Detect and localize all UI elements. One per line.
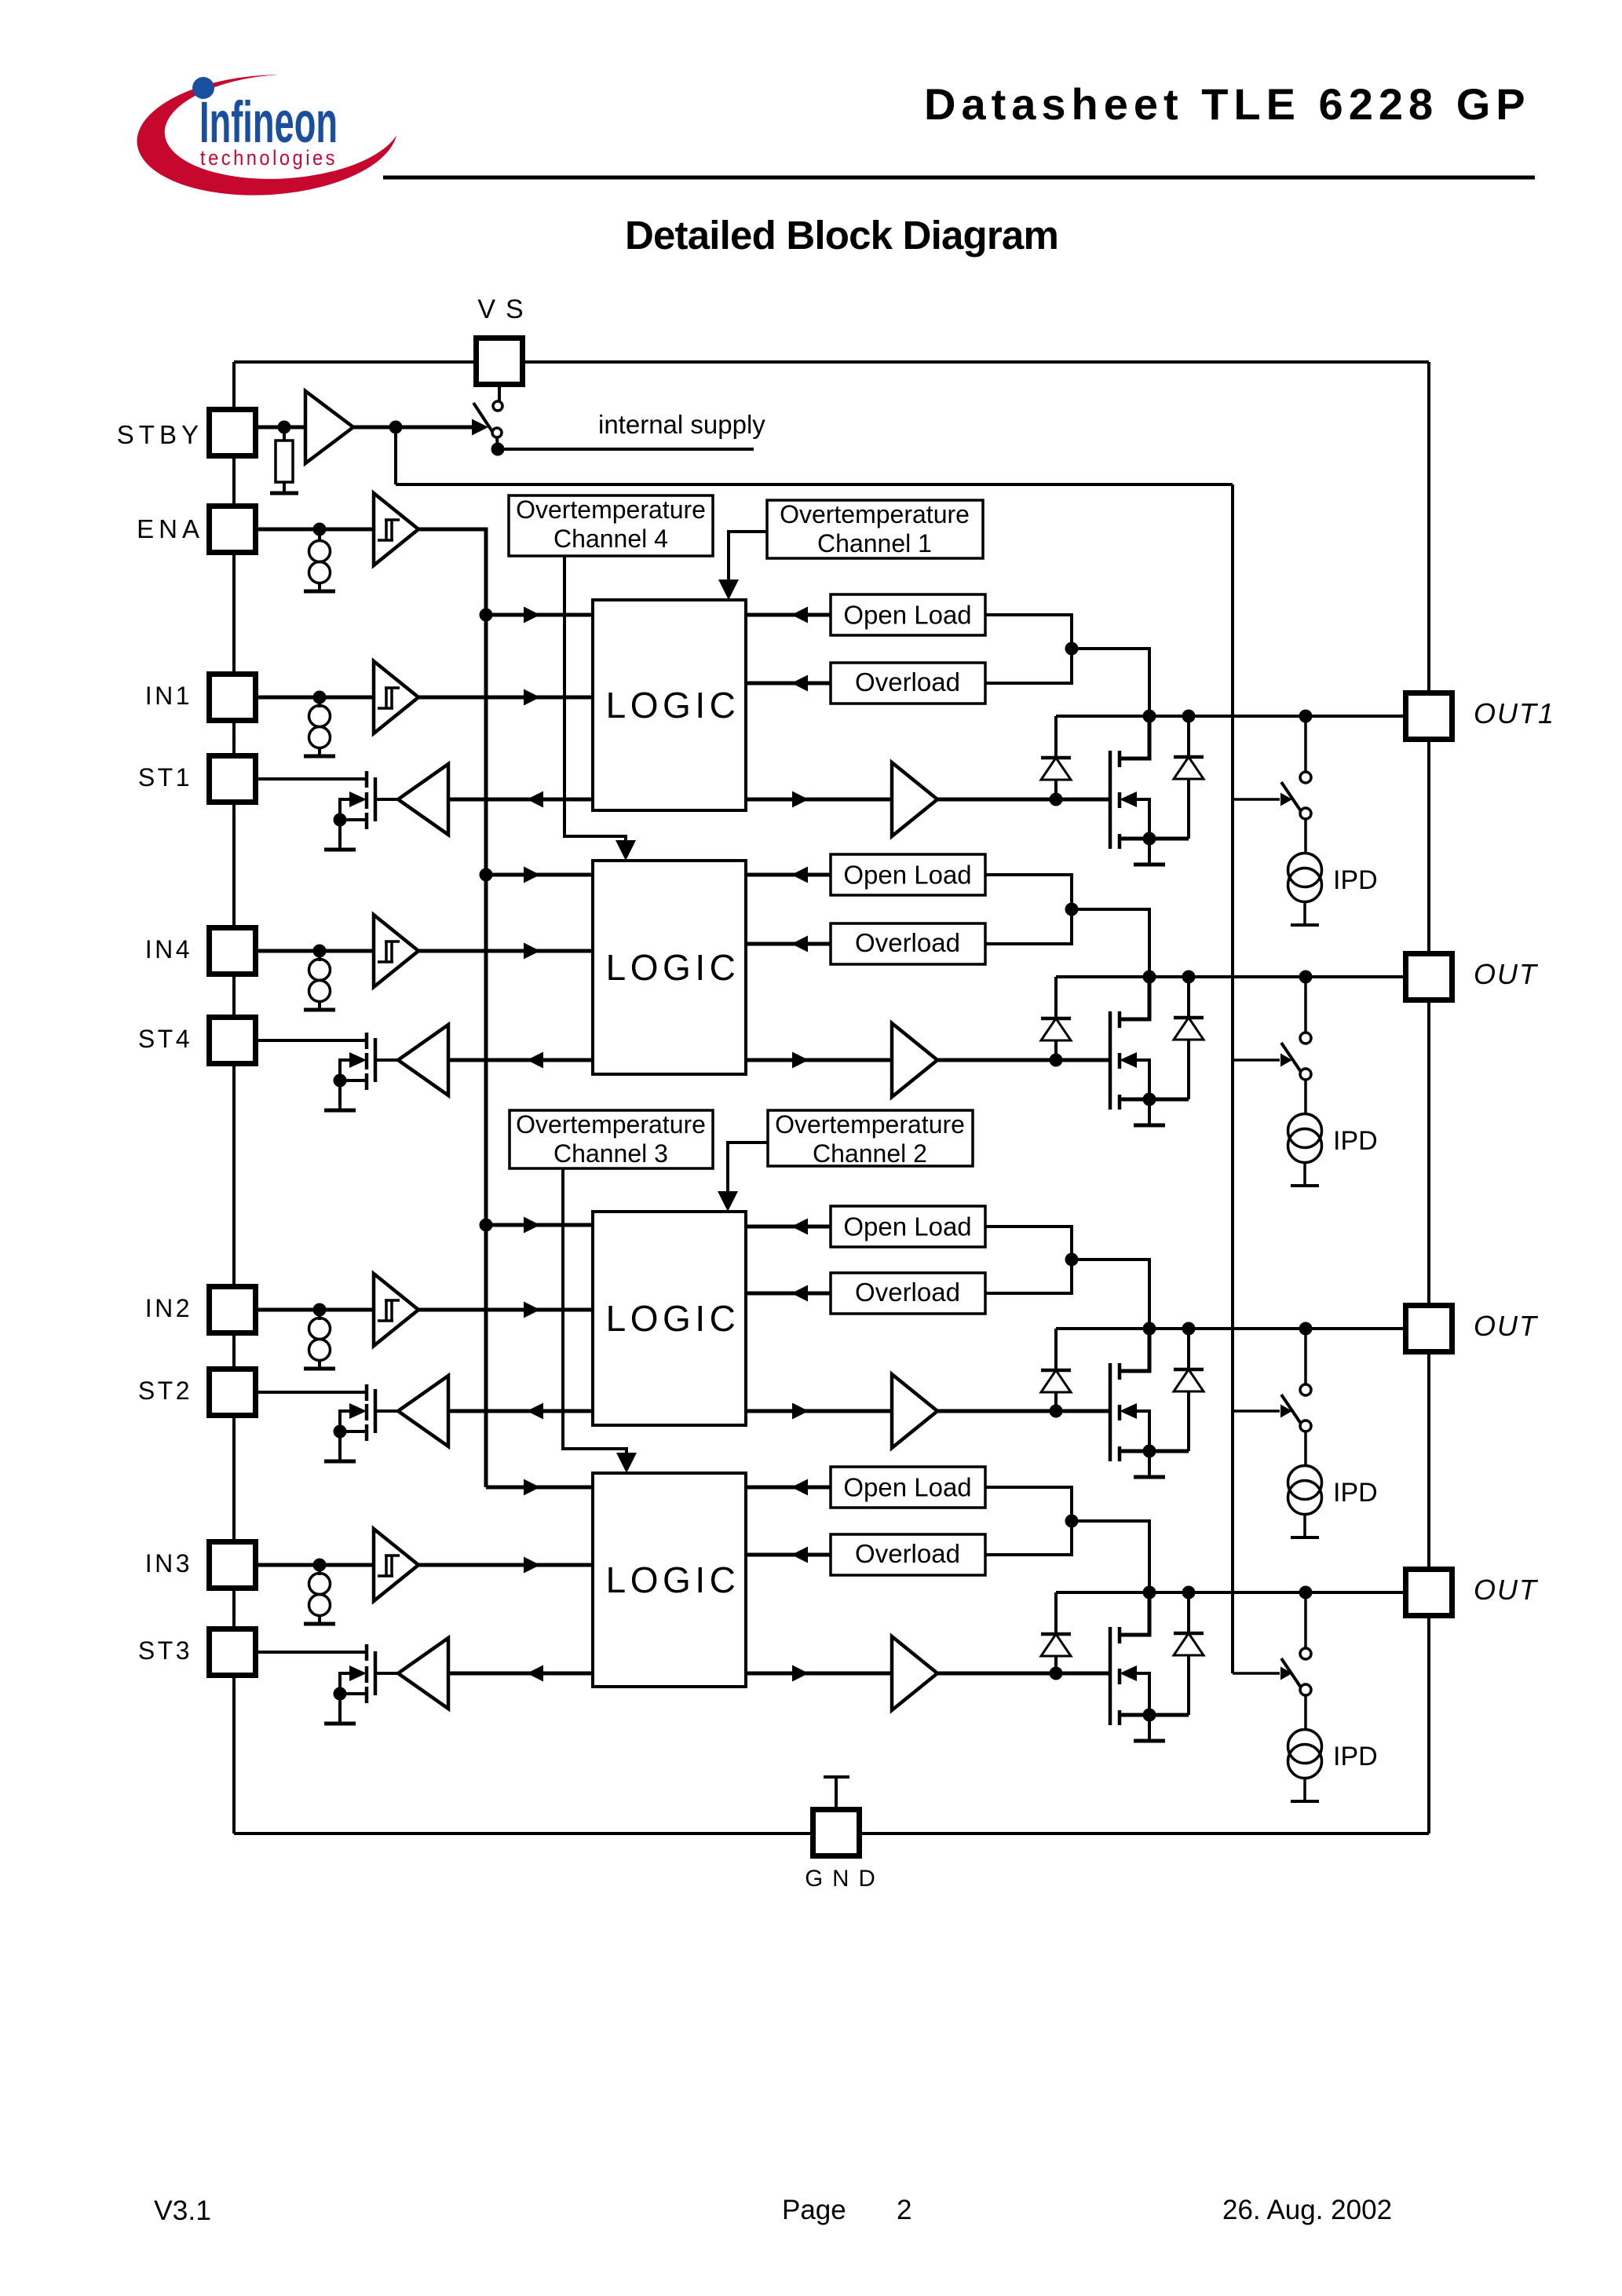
junction switch on out line ch4 [1299,971,1313,984]
label ST3 [138,1636,192,1665]
label IN4 [145,935,192,963]
transistor Q_ST2 gate bar [374,1389,378,1433]
arrow switch control ch2 [1280,1405,1292,1418]
wire Q_ST1 source to ground [338,820,342,849]
overtemp block Channel 3 OT3 [510,1110,713,1168]
current source I_IN2 [309,1318,331,1361]
ground IPD ch3 [1291,1800,1319,1803]
svg-text:Overload: Overload [855,1539,960,1568]
transistor output FET ch3 channel [1118,1627,1122,1725]
junction IN4 pulldown [313,945,327,958]
svg-text:ST4: ST4 [138,1025,192,1053]
wire FET body to source ch2 [1137,1411,1149,1451]
arrow OT3 into LOGIC4 [616,1453,637,1473]
junction FET source ch1 [1143,832,1156,846]
svg-text:Open Load: Open Load [843,1473,971,1502]
wire sense open load side [985,1487,1072,1555]
wire sense open load side [985,615,1072,683]
svg-text:Open Load: Open Load [843,861,971,890]
ground I_ENA [304,590,335,594]
IC boundary left border [232,362,236,1834]
transistor output FET ch4 body arrow [1120,1052,1137,1068]
wire OT3 to LOGIC4 [563,1168,627,1468]
wire sense to drain ch2 [1072,1260,1149,1329]
pin OUT1 ch1 [1406,693,1452,740]
arrow open load into LOGIC2 [791,1219,808,1235]
wire LOGIC1 to ST1 buffer [448,798,593,802]
svg-text:OUT1: OUT1 [1474,697,1555,729]
wire out line to IPD switch ch3 [1304,1592,1307,1648]
wire LOGIC1 to output driver [746,798,892,802]
footer version [154,2195,211,2226]
svg-text:OUT: OUT [1474,958,1539,990]
svg-text:Datasheet TLE 6228 GP: Datasheet TLE 6228 GP [924,79,1531,129]
svg-text:Overtemperature: Overtemperature [780,500,970,528]
switch S_VS upper contact [493,401,502,411]
wire ENA rail to LOGIC2 [486,1223,593,1227]
wire out line to clamp diode ch4 [1054,977,1058,1018]
diode gate clamp ch4 [1041,1018,1071,1040]
wire overload to LOGIC4 [746,942,831,946]
wire FET body to source ch3 [1137,1673,1149,1715]
svg-text:V3.1: V3.1 [154,2195,211,2226]
wire switch to IPD ch3 [1304,1695,1307,1729]
junction body diode on out line ch3 [1182,1586,1196,1600]
junction Q_ST1 source [334,813,347,827]
wire switch control ch1 [1233,798,1280,801]
label GND [805,1866,885,1892]
transistor output FET ch4 channel [1118,1011,1122,1110]
svg-text:IPD: IPD [1333,1742,1378,1771]
svg-text:Channel 2: Channel 2 [813,1139,927,1168]
wire STBY control down [394,427,397,484]
transistor output FET ch3 gate bar [1109,1627,1112,1725]
wire ENA rail to LOGIC1 [486,613,593,617]
pin ST1 [210,756,256,803]
wire overload to LOGIC1 [746,682,831,686]
transistor output FET ch1 channel [1118,751,1122,849]
wire FET source to ground ch1 [1148,839,1151,864]
ground output FET ch1 [1134,863,1165,867]
junction FET source ch4 [1143,1093,1156,1106]
svg-text:VS: VS [477,294,533,324]
open load comparator ch1 [831,594,985,635]
wire STBY to buffer [255,426,305,430]
wire FET drain ch2 [1120,1329,1149,1371]
wire sense to drain ch3 [1072,1521,1149,1592]
wire body diode to source ch1 [1187,779,1190,839]
switch IPD ch4 blade [1281,1043,1301,1072]
open load comparator ch4 [831,854,985,895]
wire out line to body diode ch2 [1187,1329,1190,1369]
wire FET drain ch1 [1120,716,1149,759]
diode gate clamp ch3 [1041,1634,1071,1656]
current source I_IN4 [309,960,331,1002]
buffer output driver ch1 [892,762,937,836]
wire FET drain ch4 [1120,977,1149,1019]
svg-text:Overtemperature: Overtemperature [516,1110,706,1139]
pin IN1 [210,675,256,721]
footer page [782,2195,846,2225]
junction ENA rail ch2 [480,1219,493,1232]
logic block LOGIC4 [593,861,746,1074]
transistor output FET ch2 body arrow [1120,1403,1137,1419]
wire overload to LOGIC2 [746,1292,831,1296]
schmitt trigger IN4 [374,915,418,987]
buffer ST4 driver [398,1025,448,1095]
wire LOGIC2 to ST2 buffer [448,1409,593,1413]
arrow overload into LOGIC4 [791,936,808,952]
wire body diode to source ch2 [1187,1391,1190,1451]
junction clamp diode gate ch2 [1050,1405,1063,1418]
transistor Q_ST3 channel [365,1644,369,1703]
junction STBY pulldown [278,421,291,434]
wire out line to IPD switch ch1 [1304,716,1307,772]
svg-text:IPD: IPD [1333,1478,1378,1508]
label IPD ch3 [1333,1742,1378,1771]
wire LOGIC4 to ST4 buffer [448,1058,593,1062]
wire Q_ST2 body to source [340,1411,367,1431]
arrow LOGIC1 to ST1 [527,792,543,808]
wire IN1 to schmitt [255,696,374,700]
overload comparator ch1 [831,663,985,704]
arrow LOGIC4 to driver [792,1052,809,1069]
wire ST3 to sense FET drain [255,1651,367,1654]
wire IN3 to current source [318,1565,321,1575]
junction Q_ST3 source [334,1687,347,1701]
wire LOGIC2 to output driver [746,1409,892,1413]
ground Q_ST1 [324,848,356,852]
wire IN2 to current source [318,1310,321,1320]
label VS [477,294,533,324]
svg-text:technologies: technologies [200,146,338,170]
open load comparator ch2 [831,1206,985,1247]
svg-text:Overload: Overload [855,1278,960,1307]
wire switch to IPD ch2 [1304,1431,1307,1465]
pin OUT ch3 [1406,1570,1452,1616]
arrow ENA into LOGIC3 [524,1479,540,1496]
wire FET source to ground ch3 [1148,1715,1151,1740]
svg-text:LOGIC: LOGIC [606,1298,740,1339]
ground I_IN3 [304,1622,335,1626]
arrow LOGIC3 to ST3 [527,1665,543,1682]
ground IPD ch1 [1291,923,1319,927]
wire body diode to source ch4 [1187,1040,1190,1099]
junction sense node ch3 [1065,1515,1079,1528]
diode body ch3 [1174,1633,1204,1655]
arrow open load into LOGIC1 [791,607,808,623]
wire out line to IPD switch ch4 [1304,977,1307,1033]
svg-text:Overtemperature: Overtemperature [775,1110,965,1139]
wire buffer to Q_ST1 gate [377,798,398,801]
arrow switch control ch4 [1280,1054,1292,1067]
transistor Q_ST1 channel [365,771,369,829]
wire switch control rail vertical [1231,484,1234,1673]
wire out line to IPD switch ch2 [1304,1329,1307,1384]
wire IN1 to current source [318,697,321,707]
arrow IN1 into LOGIC1 [524,689,540,706]
transistor Q_ST2 body arrow [349,1403,367,1419]
label STBY [117,420,203,449]
wire FET source to ground ch4 [1148,1099,1151,1124]
wire clamp diode to gate ch3 [1054,1656,1058,1673]
pin GND [813,1810,860,1856]
header rule [383,176,1535,180]
svg-text:Detailed Block Diagram: Detailed Block Diagram [625,213,1058,258]
wire IPD to ground ch2 [1303,1514,1306,1536]
svg-text:LOGIC: LOGIC [606,947,740,988]
pin VS [477,338,523,385]
switch IPD ch4 upper contact [1300,1033,1311,1044]
wire clamp diode to gate ch1 [1054,780,1058,799]
svg-text:IN3: IN3 [145,1549,192,1578]
resistor R_STBY [276,441,293,482]
switch IPD ch2 lower contact [1300,1420,1311,1431]
ground I_IN2 [304,1367,335,1371]
wire Q_ST4 body to source [340,1060,367,1080]
buffer ST3 driver [398,1638,448,1709]
junction Q_ST2 source [334,1425,347,1439]
schmitt trigger IN2 [374,1274,418,1346]
buffer ST2 driver [398,1376,448,1446]
current source IPD ch3 [1288,1730,1322,1779]
switch IPD ch1 lower contact [1300,808,1311,819]
svg-text:OUT: OUT [1474,1574,1539,1606]
wire clamp diode to gate ch4 [1054,1040,1058,1060]
wire driver to gate ch4 [937,1058,1109,1062]
schmitt trigger IN1 [374,661,418,733]
junction clamp diode gate ch4 [1050,1054,1063,1067]
arrow switch control ch3 [1280,1667,1292,1680]
ground output FET ch3 [1134,1739,1165,1743]
wire out line to body diode ch4 [1187,977,1190,1018]
buffer ST1 driver [398,764,448,835]
wire GND stem [835,1777,838,1807]
junction body diode on out line ch4 [1182,971,1196,984]
wire switch to IPD ch4 [1304,1080,1307,1113]
switch S_VS blade [473,403,495,435]
wire OT1 to LOGIC1 [729,532,767,595]
label IN2 [145,1294,192,1322]
wire OUT line ch3 [1056,1591,1405,1594]
junction FET source ch3 [1143,1709,1156,1722]
wire Q_ST3 source to ground [338,1694,342,1723]
ground IPD ch2 [1291,1536,1319,1539]
svg-text:internal supply: internal supply [598,410,765,439]
wire out line to clamp diode ch2 [1054,1329,1058,1370]
label OUT ch3 [1474,1574,1539,1606]
transistor output FET ch2 channel [1118,1363,1122,1461]
wire sense to drain ch1 [1072,649,1149,716]
switch IPD ch3 blade [1281,1658,1301,1687]
wire ST2 to sense FET drain [255,1391,367,1394]
ground I_IN4 [304,1008,335,1012]
wire I_IN4 to ground [318,1001,321,1009]
svg-text:ST3: ST3 [138,1636,192,1665]
label ST1 [138,763,192,792]
wire IN3 schmitt to LOGIC3 [418,1563,593,1567]
junction IN2 pulldown [313,1303,327,1317]
svg-text:Overload: Overload [855,928,960,957]
svg-text:IN4: IN4 [145,935,192,963]
wire I_IN3 to ground [318,1615,321,1623]
wire out line to clamp diode ch1 [1054,716,1058,758]
wire IN1 schmitt to LOGIC1 [418,696,593,700]
arrow OT1 into LOGIC1 [718,579,739,600]
junction switch on out line ch1 [1299,710,1313,723]
wire internal supply rail [498,448,754,451]
ground Q_ST4 [324,1109,356,1113]
junction drain on out line ch1 [1143,710,1156,723]
wire switch control rail horizontal [396,483,1233,486]
wire open load to LOGIC2 [746,1225,831,1229]
arrow OT2 into LOGIC3 [718,1191,738,1212]
wire LOGIC3 to ST3 buffer [448,1672,593,1676]
wire out line to body diode ch1 [1187,716,1190,757]
junction switch on out line ch3 [1299,1586,1313,1600]
transistor Q_ST1 body arrow [349,792,367,807]
wire IPD to ground ch3 [1303,1778,1306,1800]
label ST4 [138,1025,192,1053]
pin IN2 [210,1287,256,1333]
wire sense to drain ch4 [1072,909,1149,977]
wire OT2 to LOGIC3 [728,1143,768,1207]
junction sense node ch1 [1065,642,1079,656]
junction sense node ch2 [1065,1253,1079,1267]
schmitt trigger IN3 [374,1529,418,1601]
svg-text:OUT: OUT [1474,1310,1539,1342]
wire FET source to ground ch2 [1148,1451,1151,1476]
ground I_IN1 [304,755,335,759]
wire buffer to Q_ST3 gate [377,1672,398,1675]
overload comparator ch4 [831,923,985,964]
svg-text:Overload: Overload [855,667,960,696]
label IPD ch4 [1333,1126,1378,1156]
wire out line to clamp diode ch3 [1054,1592,1058,1634]
transistor Q_ST2 channel [365,1384,369,1441]
svg-text:Page: Page [782,2195,846,2225]
junction clamp diode gate ch1 [1050,793,1063,806]
arrow IN4 into LOGIC4 [524,943,540,960]
arrow overload into LOGIC1 [791,675,808,692]
wire OUT1 line ch1 [1056,715,1405,718]
ground R_STBY [270,492,298,495]
wire open load to LOGIC3 [746,1486,831,1490]
junction ENA rail ch4 [480,868,493,882]
ground Q_ST3 [324,1722,356,1726]
arrow ENA into LOGIC2 [524,1217,540,1234]
arrow ENA into LOGIC4 [524,867,540,883]
svg-text:IPD: IPD [1333,1126,1378,1156]
wire sense open load side [985,1227,1072,1293]
wire out line to body diode ch3 [1187,1592,1190,1633]
wire buffer to Q_ST2 gate [377,1409,398,1413]
junction internal supply [491,443,505,456]
wire open load to LOGIC1 [746,613,831,617]
transistor output FET ch1 gate bar [1109,751,1112,849]
diode body ch2 [1174,1369,1204,1391]
label OUT ch2 [1474,1310,1539,1342]
wire overload to LOGIC3 [746,1553,831,1557]
wire FET body to source ch1 [1137,799,1149,839]
pin ST4 [210,1018,256,1064]
junction body diode on out line ch1 [1182,710,1196,723]
label IPD ch1 [1333,865,1378,895]
wire clamp diode to gate ch2 [1054,1392,1058,1411]
wire ENA current source to ground [318,583,321,590]
svg-text:ST2: ST2 [138,1377,192,1405]
overload comparator ch3 [831,1534,985,1575]
label ENA [137,514,204,543]
switch IPD ch4 lower contact [1300,1069,1311,1080]
label IN1 [145,682,192,710]
buffer output driver ch4 [892,1023,937,1097]
transistor Q_ST3 body arrow [349,1665,367,1681]
svg-text:LOGIC: LOGIC [606,1559,740,1600]
wire I_IN2 to ground [318,1360,321,1368]
wire STBY buffer output [353,426,479,430]
wire switch control ch2 [1233,1409,1280,1413]
IC boundary bottom border [234,1832,1429,1835]
overtemp block Channel 4 OT4 [509,495,713,556]
junction STBY control node [389,421,403,434]
svg-text:ST1: ST1 [138,763,192,792]
switch IPD ch1 blade [1281,782,1301,811]
wire ENA schmitt output to rail [418,529,486,1487]
svg-text:26. Aug. 2002: 26. Aug. 2002 [1222,2195,1392,2225]
arrow LOGIC1 to driver [792,792,809,808]
current source IPD ch2 [1288,1466,1322,1515]
arrow open load into LOGIC4 [791,867,808,883]
transistor Q_ST1 gate bar [374,777,378,821]
junction body diode on out line ch2 [1182,1322,1196,1336]
diode gate clamp ch2 [1041,1370,1071,1392]
arrow LOGIC2 to ST2 [527,1403,543,1420]
arrow IN2 into LOGIC2 [524,1302,540,1318]
svg-text:IN2: IN2 [145,1294,192,1322]
junction drain on out line ch2 [1143,1322,1156,1336]
junction clamp diode gate ch3 [1050,1667,1063,1680]
arrow overload into LOGIC2 [791,1285,808,1302]
svg-text:Infineon: Infineon [199,90,338,155]
junction FET source ch2 [1143,1445,1156,1458]
wire Q_ST4 source to ground [338,1080,342,1110]
svg-text:LOGIC: LOGIC [606,685,740,726]
pin ENA [210,506,256,553]
wire OUT line ch2 [1056,1327,1405,1330]
IC boundary right border [1427,362,1430,1834]
junction ENA pulldown [313,523,327,536]
switch S_VS lower contact [492,428,502,437]
Infineon logo wordmark [199,90,338,155]
pin OUT ch2 [1406,1306,1452,1352]
transistor Q_ST4 body arrow [349,1052,367,1068]
transistor Q_ST4 channel [365,1033,369,1090]
switch IPD ch3 upper contact [1300,1648,1311,1659]
Infineon logo red swoosh [133,67,405,203]
diode gate clamp ch1 [1041,758,1071,780]
arrow STBY controls VS switch [472,419,488,436]
wire FET drain ch3 [1120,1592,1149,1635]
ground Q_ST2 [324,1460,356,1464]
wire IN2 to schmitt [255,1308,374,1312]
ground output FET ch4 [1134,1124,1165,1128]
arrow switch control ch1 [1280,793,1292,806]
svg-text:Open Load: Open Load [843,1212,971,1241]
wire buffer to Q_ST4 gate [377,1058,398,1062]
title Datasheet TLE 6228 GP [924,79,1531,129]
wire ENA to schmitt [255,528,374,532]
